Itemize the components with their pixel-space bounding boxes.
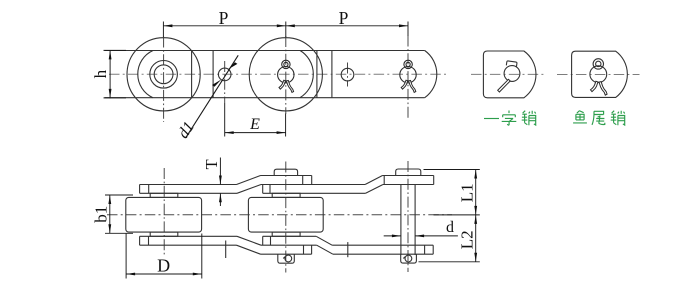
detail 1 cotter head rect <box>506 61 517 67</box>
pin bar right <box>400 185 402 255</box>
centerline left roller plan <box>163 168 165 257</box>
centerline middle pin plan <box>285 162 287 273</box>
pin head right top <box>396 169 421 175</box>
svg-text:E: E <box>249 116 260 133</box>
centerline detail 1 <box>471 73 545 75</box>
b1 dimension line <box>109 195 111 233</box>
hole half pitch <box>341 68 354 81</box>
h dimension line <box>109 50 111 98</box>
fishtail legs right <box>401 80 416 92</box>
top sidebar line y193.3 <box>140 192 237 194</box>
b1 extension top <box>105 194 133 196</box>
plate cut line 4 <box>331 51 333 98</box>
pin circle middle <box>278 67 294 83</box>
detail 2 cotter ring outer <box>593 59 603 69</box>
top sidebar line y175.5 <box>261 175 312 177</box>
centerline left roller <box>163 37 165 123</box>
pin circle right <box>400 67 416 83</box>
cotter end circle middle <box>285 255 292 262</box>
centerline horizontal side view <box>109 73 449 75</box>
arrow E right <box>277 131 286 134</box>
char yi <box>484 118 499 120</box>
top sidebar line y184.5 <box>140 184 237 186</box>
d1 leader line <box>186 55 238 137</box>
fishtail pin assembly at middle pin <box>278 60 294 83</box>
top diagonals <box>237 176 261 185</box>
svg-text:P: P <box>339 8 349 28</box>
arrow E left <box>225 131 234 134</box>
L extension bottom <box>419 261 480 263</box>
L dimension line <box>475 170 477 262</box>
detail 2 cotter ring inner <box>596 61 601 66</box>
svg-text:b1: b1 <box>92 206 111 223</box>
arrow L1 top <box>474 170 477 179</box>
char yu <box>573 111 587 123</box>
E extension right <box>285 114 287 137</box>
T dimension line upper <box>219 158 221 185</box>
roller left (circle) <box>127 38 200 111</box>
svg-text:d: d <box>446 219 454 236</box>
plate cut line 3 <box>316 51 318 98</box>
centerline d1 hole <box>224 61 226 103</box>
arrow T lower <box>219 193 222 202</box>
pin head right bottom <box>401 254 417 263</box>
inner plate right end arc <box>300 51 313 98</box>
centerline middle roller <box>285 36 287 114</box>
centerline horizontal plan view <box>107 214 452 216</box>
arrow d1 lower <box>212 80 221 87</box>
arrow b1 bottom <box>108 224 111 233</box>
bottom sidebar line y254.2 <box>261 253 312 255</box>
char wei <box>592 111 605 125</box>
cotter ring right inner <box>406 62 410 66</box>
arrow D right <box>193 273 202 276</box>
h extension top <box>104 49 127 51</box>
hole d1 <box>218 68 231 81</box>
arrow P right <box>399 24 408 27</box>
T dimension line lower <box>219 193 221 206</box>
centerline right pin <box>407 36 409 121</box>
L extension top <box>424 169 480 171</box>
P extension left <box>162 22 164 38</box>
arrow h top <box>109 50 112 59</box>
arrow T upper <box>219 176 222 185</box>
outer plate bottom edge <box>105 97 425 99</box>
dimension P line <box>163 25 408 27</box>
arrow L2 top <box>474 215 477 224</box>
pin head middle bottom <box>278 254 295 263</box>
bushing rect middle top <box>272 193 300 197</box>
D extension left <box>125 234 127 279</box>
detail 1 plate outline <box>483 51 536 98</box>
outer plate top edge <box>105 50 425 52</box>
bushing rect left top <box>150 193 178 197</box>
plate cut line 1 <box>191 51 193 98</box>
detail 1 pin circle <box>504 66 520 82</box>
detail 2 fishtail legs <box>591 81 608 95</box>
bottom sidebar line y236.3 <box>140 235 237 237</box>
P extension right <box>407 22 409 37</box>
fishtail pin assembly at right pin <box>400 60 416 83</box>
arrow h bottom <box>109 89 112 98</box>
E extension left <box>224 103 226 137</box>
roller left rect plan <box>126 197 202 232</box>
detail 2 plate outline <box>572 51 628 97</box>
char xiao1 <box>522 111 536 126</box>
svg-text:D: D <box>157 256 170 276</box>
L extension middle <box>434 214 480 216</box>
cotter end circle right <box>405 255 412 262</box>
svg-text:P: P <box>219 8 229 28</box>
svg-text:h: h <box>91 69 110 78</box>
svg-text:L2: L2 <box>458 230 477 249</box>
arrow d1 upper <box>228 62 237 69</box>
pin circle left roller <box>154 65 173 84</box>
pin head middle top <box>274 169 297 175</box>
bushing circle left roller <box>150 61 178 89</box>
roller middle (circle) <box>249 38 322 111</box>
bushing rect middle bottom <box>272 232 300 236</box>
bottom diagonals <box>237 245 261 254</box>
detail 2 pin circle <box>590 66 607 83</box>
arrow P left <box>163 24 172 27</box>
fishtail legs middle <box>279 80 294 92</box>
arrow D left <box>126 273 135 276</box>
extra plate end marks bottom <box>225 241 227 259</box>
centerline right pin plan <box>407 161 409 272</box>
label yizixiao (green) <box>484 111 536 126</box>
D dimension line <box>126 273 202 275</box>
roller middle rect plan <box>248 197 323 232</box>
bottom sidebar line y245.2 <box>140 244 237 246</box>
arrow P middle right <box>286 24 295 27</box>
d dimension line right part <box>415 235 458 237</box>
arrow P middle left <box>277 24 286 27</box>
inner plate left end arc <box>138 51 153 98</box>
arrow d right <box>415 235 424 238</box>
b1 extension bottom <box>105 232 133 234</box>
d dimension line left part <box>384 235 401 237</box>
char zi <box>502 111 517 126</box>
arrow L1 bottom <box>474 206 477 215</box>
label yuweixiao (green) <box>573 111 625 126</box>
bushing rect left bottom <box>150 232 178 236</box>
cotter ring middle outer <box>282 60 290 68</box>
top sidebar verticals <box>139 185 141 194</box>
svg-text:L1: L1 <box>457 183 476 202</box>
centerline half-pitch hole <box>347 63 349 87</box>
bottom sidebar verticals <box>139 236 141 245</box>
plate cut line 2 <box>212 51 214 98</box>
P extension middle <box>285 22 287 38</box>
arrow L2 bottom <box>474 253 477 262</box>
cotter ring middle inner <box>284 62 288 66</box>
detail 1 cotter tail strip <box>498 79 511 92</box>
arrow d left <box>392 235 401 238</box>
cotter ring right outer <box>404 60 412 68</box>
centerline detail 2 <box>557 74 640 76</box>
char xiao2 <box>611 111 625 126</box>
E dimension line <box>225 132 286 134</box>
outer plate right rounded end <box>425 51 437 98</box>
arrow b1 top <box>108 195 111 204</box>
svg-text:T: T <box>202 159 221 169</box>
D extension right <box>201 234 203 279</box>
h extension bottom <box>104 97 127 99</box>
